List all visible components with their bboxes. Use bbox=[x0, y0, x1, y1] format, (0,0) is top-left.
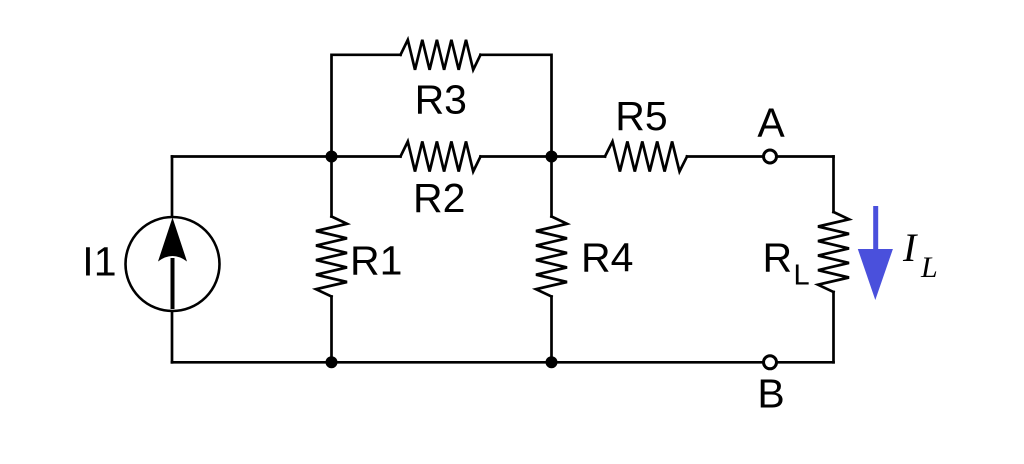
wire: RL top lead bbox=[832, 157, 835, 213]
svg-text:R4: R4 bbox=[581, 235, 633, 281]
svg-text:B: B bbox=[757, 371, 784, 417]
resistor R4 bbox=[536, 217, 567, 297]
node A terminal circle bbox=[764, 150, 777, 163]
wire: R5 to node A to right corner bbox=[687, 155, 834, 158]
junction dot J1 middle bbox=[326, 151, 338, 163]
junction dot J1 bottom bbox=[326, 356, 338, 368]
wire: top loop right vertical bbox=[481, 55, 552, 157]
resistor R5 bbox=[605, 142, 687, 172]
svg-text:L: L bbox=[920, 251, 938, 284]
node B terminal circle bbox=[764, 356, 777, 369]
svg-text:R2: R2 bbox=[413, 175, 465, 221]
wire: R4 bottom lead bbox=[550, 297, 553, 363]
svg-text:R5: R5 bbox=[615, 93, 667, 139]
wire: R1 top lead bbox=[330, 157, 333, 217]
svg-text:R3: R3 bbox=[415, 77, 467, 123]
wire: R1 bottom lead bbox=[330, 297, 333, 363]
current source arrowhead bbox=[158, 218, 187, 262]
junction dot J2 bottom bbox=[546, 356, 558, 368]
junction dot J2 middle bbox=[546, 151, 558, 163]
wire: left source branch bottom bbox=[171, 311, 174, 362]
current source I1 circle bbox=[126, 217, 220, 311]
svg-text:I1: I1 bbox=[82, 239, 116, 285]
resistor RL bbox=[818, 212, 849, 292]
resistor R1 bbox=[316, 217, 347, 297]
wire: middle left segment bbox=[172, 155, 401, 158]
resistor R2 bbox=[401, 142, 481, 172]
svg-text:I: I bbox=[902, 225, 918, 270]
wire: RL bottom lead bbox=[832, 292, 835, 362]
svg-text:A: A bbox=[757, 100, 785, 146]
resistor R3 bbox=[401, 40, 481, 70]
wire: left source branch top bbox=[171, 157, 174, 218]
wire: middle segment J1-J2 to R5 bbox=[481, 155, 606, 158]
svg-text:R1: R1 bbox=[350, 238, 402, 284]
wire: bottom rail bbox=[172, 361, 834, 364]
wire: R4 top lead bbox=[550, 157, 553, 217]
load current arrow IL (blue) bbox=[858, 206, 893, 300]
svg-text:L: L bbox=[794, 260, 810, 292]
current source arrow shaft bbox=[171, 258, 175, 309]
svg-text:R: R bbox=[763, 235, 793, 281]
wire: top loop left vertical bbox=[332, 55, 401, 157]
